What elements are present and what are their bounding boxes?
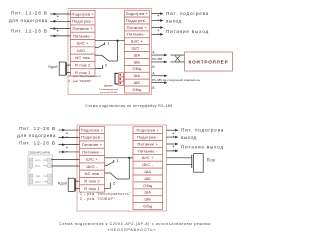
wire: right power output row 3 (diagram 1) bbox=[152, 26, 164, 29]
svg-text:Ш/С -: Ш/С - bbox=[131, 46, 142, 51]
wire from R пож 1 to switch 2 contact (diagram 1) bbox=[95, 68, 103, 70]
svg-text:Движок: Движок bbox=[104, 85, 113, 88]
terminal "R пож 2" (left column, diagram 1, row 8) bbox=[71, 61, 96, 68]
terminal "R пож 1" (left column, diagram 1, row 9) bbox=[71, 69, 96, 76]
wire RS-485 line B to next detector (diagram 1) bbox=[152, 81, 168, 84]
svg-text:RS-485: RS-485 bbox=[152, 57, 163, 61]
svg-text:Ш/С +: Ш/С + bbox=[131, 39, 143, 44]
resistor Rок body (diagram 2) bbox=[194, 154, 204, 173]
АР2 terminal row ШС2+ bbox=[29, 180, 51, 184]
svg-text:для подогрева: для подогрева bbox=[17, 133, 56, 138]
terminal "Подогрев -" (left column, diagram 2, row 2) bbox=[80, 134, 105, 141]
terminal "NC пож" (left column, diagram 2, row 7) bbox=[80, 170, 105, 177]
wire: vertical from junction down to relay common (diagram 1) bbox=[117, 41, 119, 61]
terminal "ША" (right column, diagram 1, row 10) bbox=[125, 72, 150, 79]
svg-text:ШБ: ШБ bbox=[144, 176, 151, 181]
wire: vertical from junction down (diagram 2) bbox=[128, 158, 130, 179]
resistor Rок bracket bar (diagram 2) bbox=[191, 155, 193, 168]
svg-text:выход: выход bbox=[181, 135, 197, 140]
terminal "NC пож" (left column, diagram 1, row 7) bbox=[71, 54, 96, 61]
svg-text:Пит. 12-28 В: Пит. 12-28 В bbox=[11, 11, 48, 16]
wire: left power input row 1 (diagram 1) bbox=[50, 13, 71, 16]
svg-text:1 - реж "Неисправность": 1 - реж "Неисправность" bbox=[80, 192, 131, 196]
resistor Rдоб bracket bar (diagram 1) bbox=[66, 62, 68, 75]
svg-text:Пит. подогрева: Пит. подогрева bbox=[181, 128, 224, 133]
wire: left power input row 4 (diagram 1) bbox=[50, 35, 71, 38]
RS-485 termination slider box 1 (diagram 1) bbox=[119, 73, 124, 77]
svg-text:NC пож: NC пож bbox=[75, 55, 90, 60]
switch 2 blade (diagram 1) bbox=[102, 55, 110, 61]
terminal "Подогрев -" (right column, diagram 2, row 2) bbox=[133, 134, 163, 141]
annotation "Движок R ... RS-485" (diagram 1) bbox=[99, 85, 118, 94]
svg-text:Пит. 12-28 В: Пит. 12-28 В bbox=[19, 140, 56, 145]
terminal "Питание -" (right column, diagram 1, row 4) bbox=[125, 31, 150, 38]
svg-text:для линии RS-485: для линии RS-485 bbox=[100, 92, 118, 94]
svg-text:B: B bbox=[152, 86, 154, 90]
terminal "ШБ" (right column, diagram 1, row 8) bbox=[125, 59, 150, 66]
svg-text:Питание -: Питание - bbox=[127, 32, 147, 37]
terminal "Общ" (right column, diagram 1, row 9) bbox=[125, 65, 150, 72]
RS-485 termination slider box 2 (diagram 1) bbox=[119, 77, 124, 81]
svg-text:Питание -: Питание - bbox=[73, 33, 93, 38]
svg-text:Подогрев +: Подогрев + bbox=[137, 128, 160, 133]
svg-text:Схема подключения к С2000-АР2: Схема подключения к С2000-АР2 (АР-8) с и… bbox=[59, 222, 211, 226]
svg-text:ША: ША bbox=[134, 52, 141, 57]
controller box (diagram 1) bbox=[185, 52, 233, 71]
wire: right power output row 1 (diagram 1) bbox=[152, 12, 164, 15]
switch 2 fixed contact tick (diagram 2) bbox=[109, 183, 111, 186]
svg-text:R клеммодержателей: R клеммодержателей bbox=[99, 88, 118, 91]
terminal "Подогрев +" (right column, diagram 2, row 1) bbox=[133, 127, 163, 134]
svg-text:R пож 2: R пож 2 bbox=[75, 62, 90, 67]
svg-text:Питание +: Питание + bbox=[72, 26, 93, 31]
terminal "Общ" (right column, diagram 1, row 12) bbox=[125, 86, 150, 93]
terminal "ША" (right column, diagram 2, row 7) bbox=[133, 168, 163, 175]
switch contact 2 stub from NC пож (diagram 2) bbox=[105, 172, 111, 174]
svg-text:Питание выход: Питание выход bbox=[181, 145, 224, 150]
svg-text:Подогрев -: Подогрев - bbox=[137, 134, 159, 139]
terminal "Питание +" (left column, diagram 2, row 3) bbox=[80, 141, 105, 148]
terminal "Ш/О -" (left column, diagram 2, row 6) bbox=[80, 163, 105, 170]
svg-text:Ш/О -: Ш/О - bbox=[77, 48, 89, 53]
wire АР2 ШС to detector Ш/О- (diagram 2) bbox=[51, 165, 79, 167]
svg-text:«НЕИСПРАВНОСТЬ»: «НЕИСПРАВНОСТЬ» bbox=[108, 228, 157, 232]
device С2000-АР2 (АР-8) box bbox=[28, 155, 53, 185]
terminal "Общ" (right column, diagram 2, row 12) bbox=[133, 203, 163, 210]
wire: left power input row 4 (diagram 2) bbox=[59, 151, 80, 154]
wire: right power output row 1 (diagram 2) bbox=[167, 129, 179, 132]
resistor Rдоб body (diagram 2) bbox=[68, 178, 74, 191]
АР2 relay symbol mark bbox=[30, 169, 32, 173]
switch 2 fixed contact tick (diagram 1) bbox=[102, 65, 104, 69]
svg-text:Общ: Общ bbox=[143, 183, 153, 188]
resistor Rдоб leads (diagram 1) bbox=[67, 64, 71, 66]
terminal "Ш/С +" (left column, diagram 1, row 5) bbox=[71, 40, 96, 47]
terminal "Питание -" (left column, diagram 2, row 4) bbox=[80, 148, 105, 155]
terminal "Питание +" (right column, diagram 2, row 3) bbox=[133, 141, 163, 148]
terminal "Питание -" (right column, diagram 2, row 4) bbox=[133, 147, 163, 154]
terminal "ШБ" (right column, diagram 2, row 8) bbox=[133, 175, 163, 182]
switch contact 1 wire stub from Ш/О- (diagram 1) bbox=[95, 47, 98, 49]
svg-text:Ш/С +: Ш/С + bbox=[142, 155, 154, 160]
switch 1 fixed contact tick (diagram 2) bbox=[113, 160, 115, 163]
svg-text:Ш/С +: Ш/С + bbox=[77, 41, 89, 46]
wire: left power input row 3 (diagram 2) bbox=[59, 143, 80, 146]
svg-text:ШБ: ШБ bbox=[134, 59, 141, 64]
terminal "Ш/О -" (left column, diagram 1, row 6) bbox=[71, 47, 96, 54]
terminal "Ш/С -" (right column, diagram 1, row 6) bbox=[125, 45, 150, 52]
terminal "Подогрев -" (left column, diagram 1, row 2) bbox=[71, 18, 96, 25]
resistor Rдоб body (diagram 1) bbox=[59, 62, 65, 75]
svg-text:Подогрев +: Подогрев + bbox=[72, 11, 95, 16]
svg-text:Питание -: Питание - bbox=[138, 148, 158, 153]
svg-text:Подогрев -: Подогрев - bbox=[72, 19, 94, 24]
svg-text:Подогрев +: Подогрев + bbox=[126, 11, 149, 16]
svg-text:КОНТРОЛЛЕР: КОНТРОЛЛЕР bbox=[188, 59, 228, 64]
node: junction dot on Ш/С+ line (diagram 1) bbox=[116, 40, 118, 42]
svg-text:Пит. 12-28 В: Пит. 12-28 В bbox=[11, 29, 48, 34]
wire: Ш/С+ through-line (diagram 1) bbox=[95, 40, 125, 42]
switch contact 2 wire stub from NC пож (diagram 1) bbox=[95, 54, 102, 56]
svg-text:Ш/С +: Ш/С + bbox=[86, 157, 98, 162]
terminal "Подогрев +" (right column, diagram 1, row 1) bbox=[125, 10, 150, 17]
wire RS-485 line A to controller (diagram 1) bbox=[152, 54, 168, 57]
svg-text:выход: выход bbox=[166, 19, 182, 24]
wire: right power output row 4 (diagram 2) bbox=[167, 150, 179, 153]
svg-text:ШС1+: ШС1+ bbox=[35, 160, 42, 162]
wire АР2 ШС to detector Ш/С+ (diagram 2) bbox=[51, 159, 79, 161]
svg-text:ШБ: ШБ bbox=[134, 80, 141, 85]
АР2 terminal row С2К1 bbox=[29, 174, 51, 178]
resistor Rок leads (diagram 2) bbox=[167, 157, 192, 159]
node: junction dot on Ш/С+ line (diagram 2) bbox=[128, 157, 130, 159]
twisted pair continuation to controller (diagram 1) bbox=[171, 55, 185, 62]
svg-text:Питание +: Питание + bbox=[82, 142, 103, 147]
switch 2 blade (diagram 2) bbox=[111, 173, 118, 179]
wire: left power input row 1 (diagram 2) bbox=[59, 129, 80, 132]
svg-text:Ш/С -: Ш/С - bbox=[142, 162, 153, 167]
svg-text:Rок: Rок bbox=[207, 157, 216, 162]
svg-text:Ш/О -: Ш/О - bbox=[86, 164, 98, 169]
terminal "ША" (right column, diagram 1, row 7) bbox=[125, 52, 150, 59]
wire: right power output row 2 (diagram 2) bbox=[167, 136, 179, 139]
terminal "R пож 2" (left column, diagram 2, row 8) bbox=[80, 178, 105, 185]
wire: left power input row 3 (diagram 1) bbox=[50, 27, 71, 30]
wire: right power output row 3 (diagram 2) bbox=[167, 143, 179, 146]
svg-text:ШС2+: ШС2+ bbox=[35, 182, 42, 184]
svg-text:R пож 2: R пож 2 bbox=[84, 179, 99, 184]
svg-text:Rдоб: Rдоб bbox=[58, 182, 67, 186]
svg-text:Подогрев -: Подогрев - bbox=[126, 18, 148, 23]
svg-text:Пит. 12-28 В: Пит. 12-28 В bbox=[19, 126, 56, 131]
wire from R пож 1 to switch 2 contact (diagram 2) bbox=[105, 187, 111, 189]
wire RS-485 line A to next detector (diagram 1) bbox=[152, 74, 168, 77]
svg-text:ША: ША bbox=[144, 190, 151, 195]
svg-text:С2К1: С2К1 bbox=[35, 176, 41, 178]
terminal "ША" (right column, diagram 2, row 10) bbox=[133, 189, 163, 196]
switch contact 1 stub from Ш/О- (diagram 2) bbox=[105, 164, 108, 166]
terminal "Ш/С +" (right column, diagram 1, row 5) bbox=[125, 38, 150, 45]
bracket pointing to RS-485 termination sliders (diagram 1) bbox=[115, 73, 118, 84]
terminal "ШБ" (right column, diagram 1, row 11) bbox=[125, 79, 150, 86]
svg-text:Питание +: Питание + bbox=[137, 141, 158, 146]
detector outer enclosure box (diagram 2) bbox=[77, 125, 167, 211]
wire: relay common horizontal (diagram 2) bbox=[117, 178, 129, 180]
svg-text:Подогрев -: Подогрев - bbox=[81, 135, 103, 140]
svg-text:Питание выход: Питание выход bbox=[166, 29, 209, 34]
terminal "Подогрев +" (left column, diagram 1, row 1) bbox=[71, 10, 96, 17]
svg-text:RS-485 На следующий извещатель: RS-485 На следующий извещатель bbox=[152, 78, 201, 82]
wire: right power output row 2 (diagram 1) bbox=[152, 19, 164, 22]
АР2 terminal row ШС1+ bbox=[29, 158, 51, 162]
terminal "Ш/С +" (left column, diagram 2, row 5) bbox=[80, 156, 105, 163]
svg-text:Rдоб: Rдоб bbox=[48, 65, 57, 69]
svg-text:Общ: Общ bbox=[132, 66, 142, 71]
resistor Rдоб bracket bar (diagram 2) bbox=[75, 178, 77, 191]
svg-text:Общ: Общ bbox=[143, 203, 153, 208]
svg-text:1 - реж "Неисправность": 1 - реж "Неисправность" bbox=[69, 74, 102, 78]
terminal "Ш/С +" (right column, diagram 2, row 5) bbox=[133, 154, 163, 161]
svg-text:B: B bbox=[152, 65, 154, 69]
terminal "Ш/С -" (right column, diagram 2, row 6) bbox=[133, 161, 163, 168]
АР2 terminal row ШС1- bbox=[29, 164, 51, 168]
terminal "Подогрев +" (left column, diagram 2, row 1) bbox=[80, 126, 105, 133]
switch 1 blade (diagram 1) bbox=[98, 44, 105, 48]
svg-text:2 - реж "ПОЖАР": 2 - реж "ПОЖАР" bbox=[69, 79, 92, 83]
switch 1 blade (diagram 2) bbox=[108, 162, 114, 166]
terminal "Питание +" (left column, diagram 1, row 3) bbox=[71, 25, 96, 32]
svg-text:Питание -: Питание - bbox=[82, 149, 102, 154]
svg-text:NC пож: NC пож bbox=[85, 171, 100, 176]
wire: left power input row 2 (diagram 2) bbox=[59, 136, 80, 139]
svg-text:2 - реж "ПОЖАР": 2 - реж "ПОЖАР" bbox=[80, 197, 115, 201]
terminal "R пож 1" (left column, diagram 2, row 9) bbox=[80, 185, 105, 192]
svg-text:для подогрева: для подогрева bbox=[9, 18, 48, 23]
svg-text:ШС1-: ШС1- bbox=[35, 166, 41, 168]
wire: relay common horizontal segment (diagram 1) bbox=[109, 60, 118, 62]
terminal "Общ" (right column, diagram 2, row 9) bbox=[133, 182, 163, 189]
svg-text:С2000-АР2 (АР-8): С2000-АР2 (АР-8) bbox=[28, 151, 50, 155]
resistor Rдоб leads (diagram 2) bbox=[76, 180, 80, 182]
wire: Ш/С+ through-line (diagram 2) bbox=[105, 157, 134, 159]
terminal "Питание -" (left column, diagram 1, row 4) bbox=[71, 32, 96, 39]
wire: right power output row 4 (diagram 1) bbox=[152, 33, 164, 36]
svg-text:Общ: Общ bbox=[132, 87, 142, 92]
svg-text:Пит. подогрева: Пит. подогрева bbox=[166, 11, 209, 16]
svg-text:ША: ША bbox=[144, 169, 151, 174]
RS-485 termination slider box 3 (diagram 1) bbox=[119, 81, 124, 85]
terminal "ШБ" (right column, diagram 2, row 11) bbox=[133, 196, 163, 203]
svg-text:ШБ: ШБ bbox=[144, 197, 151, 202]
terminal "Питание +" (right column, diagram 1, row 3) bbox=[125, 24, 150, 31]
svg-text:Питание +: Питание + bbox=[127, 25, 148, 30]
wire RS-485 line B to controller (diagram 1) bbox=[152, 61, 168, 64]
svg-text:R пож 1: R пож 1 bbox=[84, 186, 99, 191]
svg-text:ША: ША bbox=[134, 73, 141, 78]
svg-text:Подогрев +: Подогрев + bbox=[81, 127, 104, 132]
wire: left power input row 2 (diagram 1) bbox=[50, 20, 71, 23]
detector outer enclosure box (diagram 1) bbox=[68, 9, 152, 95]
terminal "Подогрев -" (right column, diagram 1, row 2) bbox=[125, 17, 150, 24]
svg-text:Схема подключения по интерфейс: Схема подключения по интерфейсу RS-485 bbox=[85, 104, 172, 108]
switch 1 fixed contact tick (diagram 1) bbox=[104, 42, 106, 45]
